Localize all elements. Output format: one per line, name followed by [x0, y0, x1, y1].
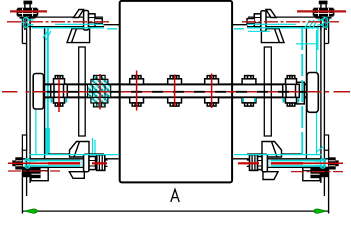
top-left anchor bolt body [25, 2, 30, 31]
bottom rail right [233, 154, 329, 159]
cyan vertical: left short highlight [44, 28, 46, 160]
top-left anchor bolt cap [24, 1, 32, 4]
shaft flange clamp x=59 [51, 76, 68, 107]
top-right anchor bolt cap [319, 1, 327, 4]
top-left wing bolt wing upper [74, 10, 84, 18]
bottom-left screw pale cyan band [29, 160, 87, 167]
left bearing plate [33, 74, 43, 110]
top-right wing bolt washer [261, 11, 266, 31]
top rail left [22, 17, 119, 27]
top-left wing bolt nut [89, 14, 96, 27]
red centerline clamp 174.6 [174, 75, 176, 107]
cyan marks clamp 59 [52, 98, 67, 103]
cyan vertical pair bottom-left [93, 138, 96, 160]
top-right anchor bolt body [321, 2, 326, 31]
cyan vertical: left frame highlighted edge [47, 28, 49, 154]
top rail right [232, 17, 328, 27]
top-right wing bolt wing upper [266, 10, 276, 18]
bottom-left screw end nut [12, 157, 23, 169]
bottom-left foot block [31, 168, 48, 181]
cyan circle top-left bolt hole [21, 17, 34, 27]
bottom-right screw end nut [328, 157, 339, 169]
top-left wing bolt stub [95, 19, 102, 24]
top-right wing bolt stub [247, 19, 254, 24]
bottom-right foot block [303, 168, 320, 181]
cyan screw highlight bottom-left [25, 159, 80, 161]
cyan rail highlight top-right [247, 23, 296, 25]
cyan marks clamp 249 [243, 98, 255, 102]
top-left wing bolt wing lower [67, 29, 90, 43]
bolt clamp x=174.6 [168, 76, 182, 107]
left frame vertical 2 [26, 19, 28, 196]
bottom-left screw lock nut [97, 155, 105, 171]
red centerline bottom-left screw axis [8, 162, 48, 164]
red centerline bottom-right lower axis [291, 171, 343, 173]
red centerline clamp 100 [99, 74, 101, 110]
red centerline clamp 136.6 [136, 71, 138, 111]
right column box [324, 135, 328, 150]
cyan rail highlight top-left [55, 23, 104, 25]
bottom screw tube left [25, 166, 102, 168]
cyan patch left frame lower [45, 128, 50, 155]
left column box [22, 135, 26, 150]
cyan short segment below right washer [248, 30, 270, 32]
bottom-right screw lock nut [250, 155, 258, 171]
bottom-left wing bolt wing upper [70, 142, 90, 158]
bottom-right plate column dark foot [321, 167, 329, 177]
cyan hatched coupling on shaft (selected) [88, 75, 111, 107]
bottom-right wing bolt nut [256, 157, 263, 170]
top-left anchor hex nut [17, 8, 39, 18]
cyan vertical: right inner highlighted edge [316, 30, 318, 154]
left frame inner vertical [44, 27, 46, 159]
shaft flange clamp x=292 [283, 76, 300, 107]
bottom-right wing bolt wing upper [262, 142, 282, 158]
red centerline bottom-left lower axis [8, 170, 60, 172]
cyan circle bottom-left screw hole [25, 158, 36, 168]
bottom screw tube right [249, 166, 326, 168]
top-left wing bolt washer [84, 11, 89, 31]
top-right wing bolt nut [254, 14, 260, 27]
dimension text A [171, 189, 179, 202]
red centerline clamp 211.6 [211, 74, 213, 109]
left inner bar [79, 47, 86, 136]
cyan hatch marks top-left rail [43, 29, 51, 40]
right frame vertical 2 [323, 19, 325, 196]
central drum rectangle [120, 1, 232, 183]
cyan rail highlight bottom-right [234, 154, 322, 156]
cyan vertical: right frame highlighted edge [301, 28, 303, 154]
bottom-right wing bolt washer [262, 154, 267, 171]
cyan hatch marks top-right rail [304, 20, 317, 29]
cyan circle top-right bolt hole [318, 17, 331, 27]
right frame vertical 3 [320, 17, 322, 183]
cyan diagonal bottom-right rail [317, 146, 325, 152]
right bearing plate [307, 73, 318, 113]
bottom-left plate column dark foot [22, 167, 30, 177]
top-right anchor hex nut [313, 8, 335, 18]
left frame outer vertical [22, 18, 26, 214]
bottom-right screw pale cyan band [266, 160, 322, 167]
bottom rail left [22, 154, 118, 159]
cyan horizontal right step [296, 43, 319, 45]
bolt clamp x=136.6 [130, 76, 144, 107]
cyan marks clamp 292 [284, 98, 299, 103]
shaft bottom line [43, 96, 307, 98]
left frame vertical 3 [29, 17, 31, 183]
black phantom dashes on shaft axis [47, 91, 307, 93]
right frame outer vertical [324, 18, 328, 214]
dimension arrow right green [314, 209, 327, 213]
bottom-left wing bolt nut [89, 157, 96, 170]
cyan vertical: right bolt-bar highlight [317, 28, 319, 50]
red centerline top-right rail bolt axis [242, 21, 339, 23]
red centerline top-left anchor axis [10, 10, 47, 12]
red centerline top-left rail bolt axis [7, 21, 109, 23]
red centerline clamp 59 [58, 79, 60, 112]
top-right wing bolt wing lower [261, 29, 284, 43]
red centerline main shaft axis [2, 91, 350, 93]
red centerline bottom-right screw axis [303, 162, 343, 164]
bottom-left wing bolt washer [84, 154, 89, 171]
bottom-right wing bolt wing lower [263, 172, 278, 180]
dimension line A [22, 210, 328, 212]
dimension arrow left green [24, 209, 37, 213]
cyan circle bottom-right screw hole [315, 158, 326, 168]
right frame inner vertical [305, 27, 307, 159]
red centerline top-right anchor axis [297, 10, 346, 12]
cyan rail highlight bottom-left [29, 154, 119, 156]
bolt clamp x=249.0 [242, 76, 256, 107]
bottom-left wing bolt wing lower [69, 172, 84, 179]
bolt clamp x=211.6 [205, 76, 219, 107]
cyan screw highlight bottom-right [271, 159, 326, 161]
shaft top line [43, 83, 307, 85]
right shaft end boss [295, 82, 305, 104]
right inner bar [264, 47, 271, 136]
cyan vertical: left lower highlight [35, 108, 37, 154]
